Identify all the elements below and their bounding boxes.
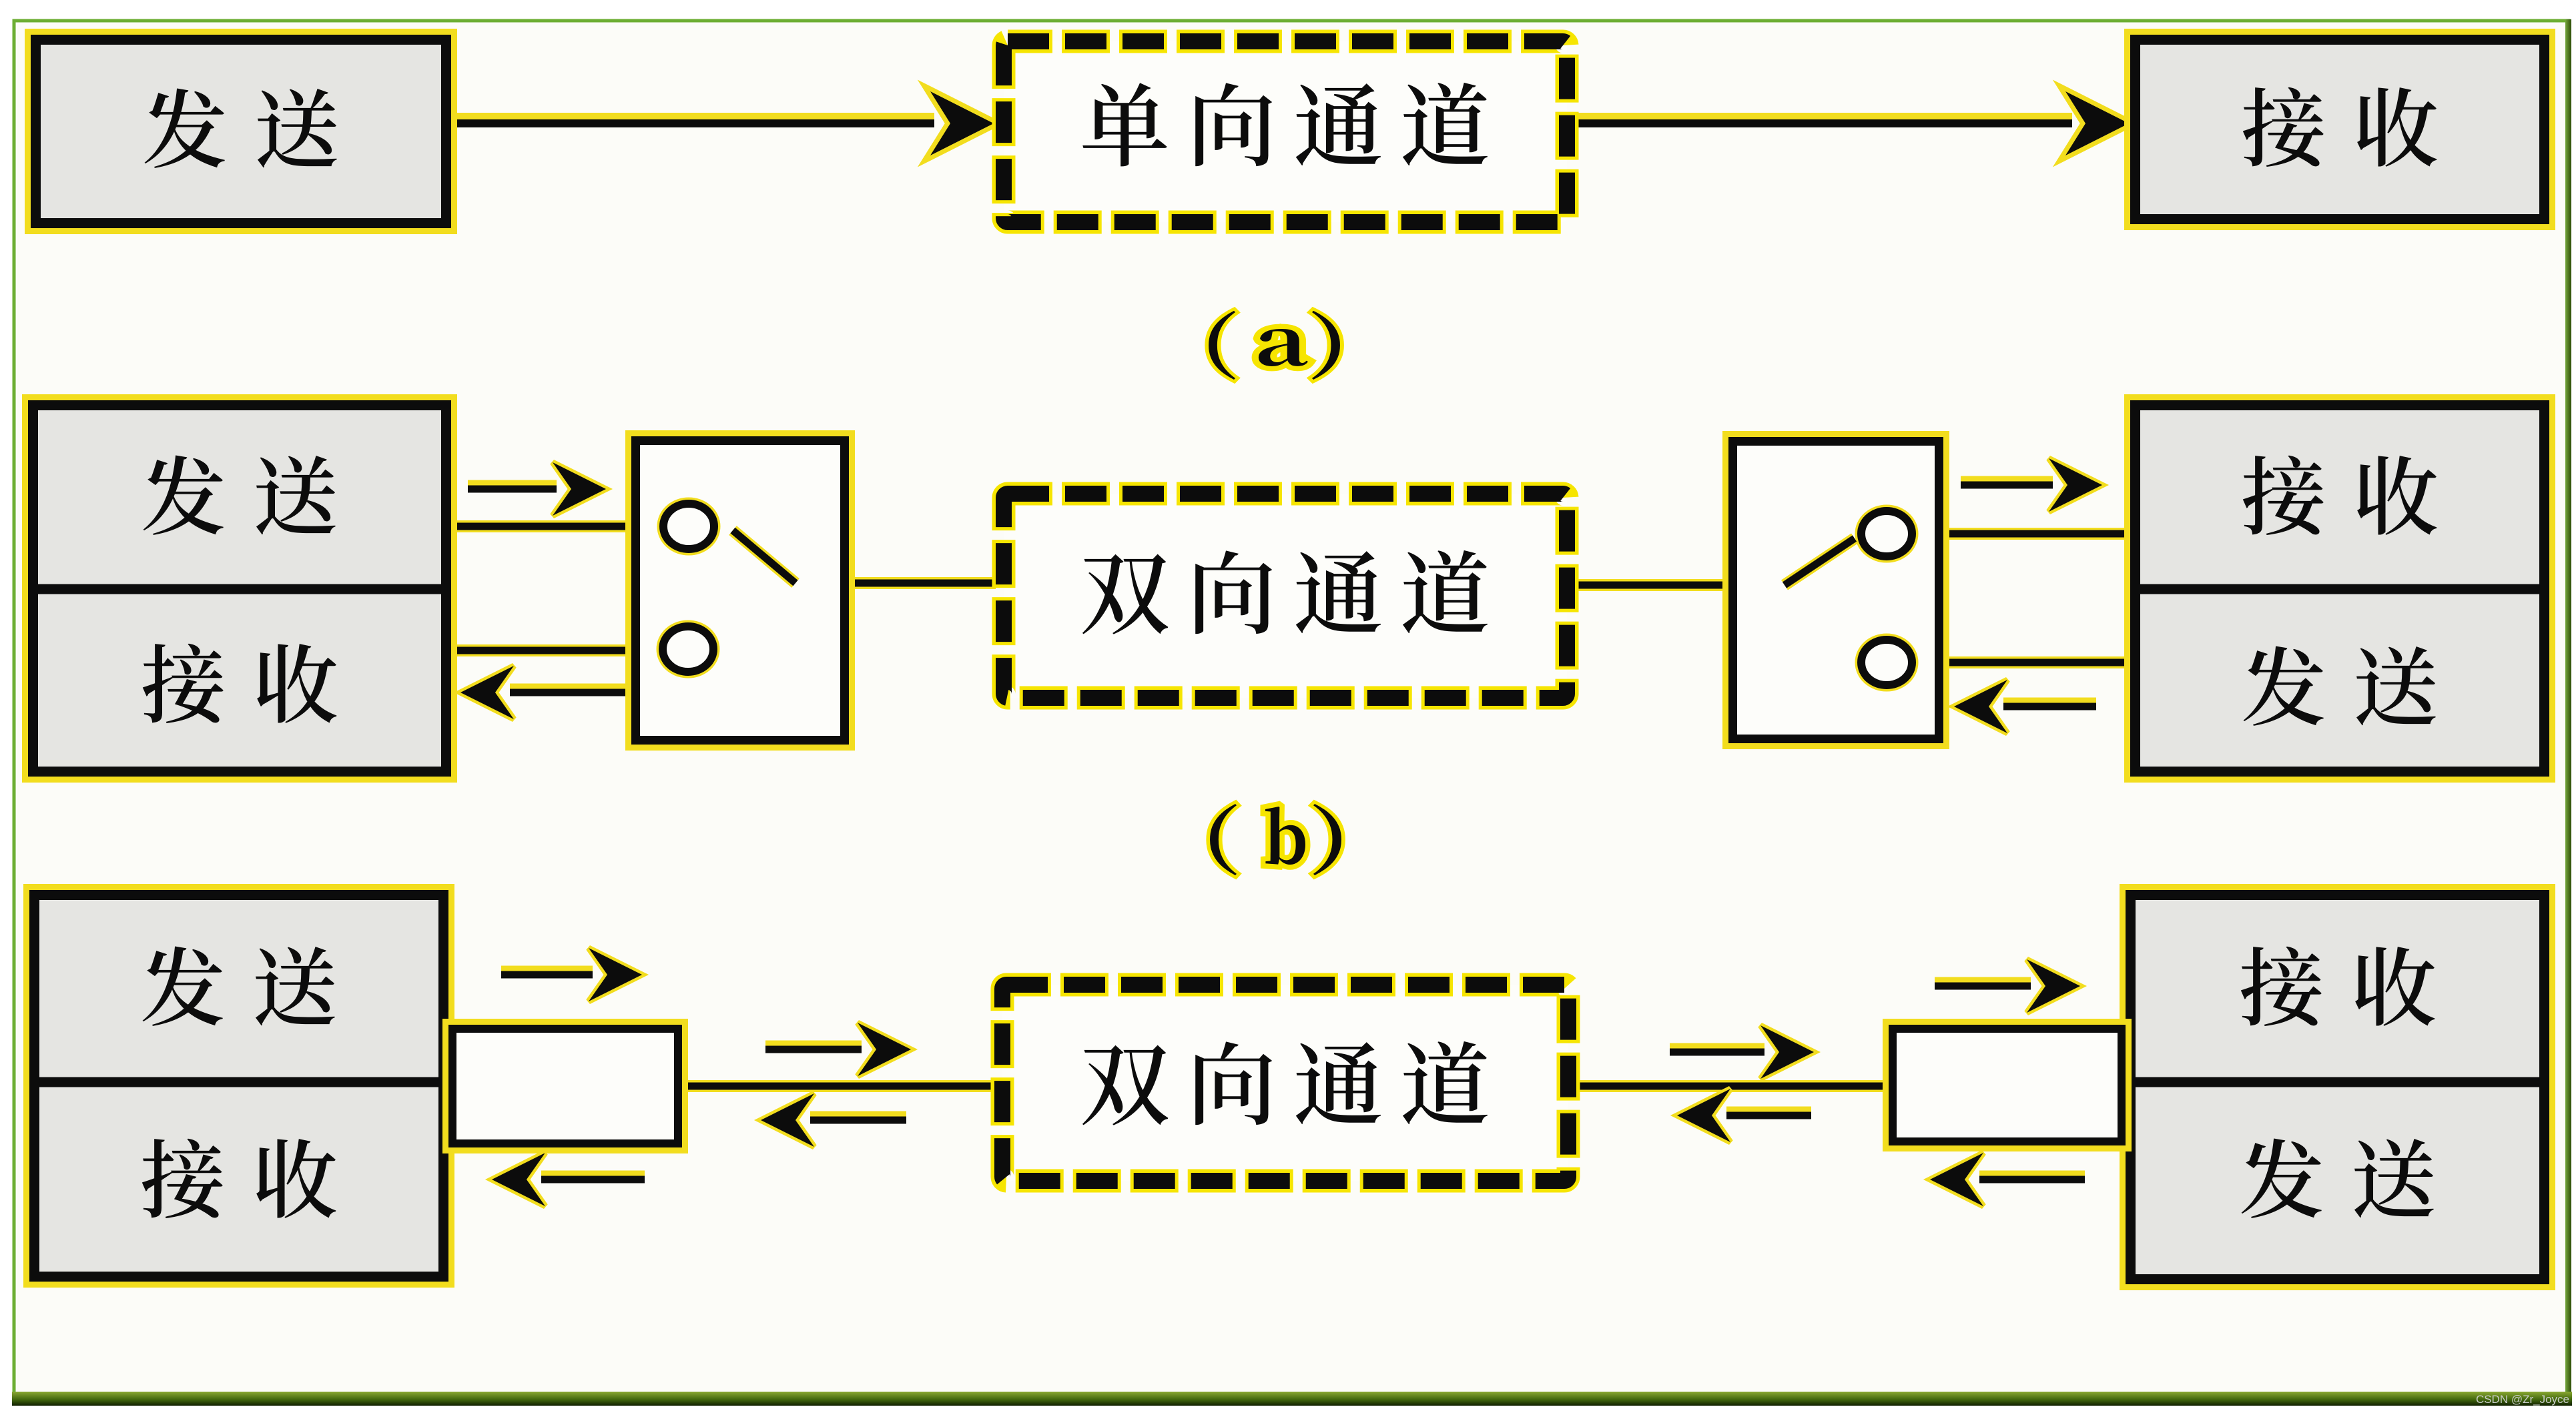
svg-text:CSDN @Zr_Joyce: CSDN @Zr_Joyce — [2476, 1393, 2569, 1406]
